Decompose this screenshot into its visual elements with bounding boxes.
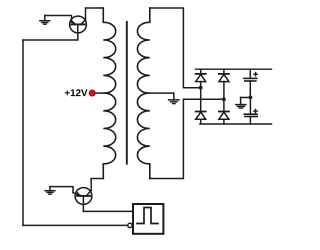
ground G2 (bottom-left) <box>45 187 55 195</box>
node bubble (pulse generator output terminal) <box>128 223 132 227</box>
wire secondary top to bridge AC1 <box>150 8 201 88</box>
node +12V (red dot) <box>89 90 95 96</box>
wire secondary bottom to bridge AC2 <box>150 99 224 178</box>
label +12V <box>65 89 88 96</box>
wire ground G2 to Q2 emitter <box>50 187 73 193</box>
wire bottom rail (- output) <box>200 123 272 125</box>
node capacitor midpoint <box>249 96 253 100</box>
capacitor C1 (top) <box>244 69 257 97</box>
diode D4 (bottom right) <box>219 99 229 124</box>
transformer T1 core <box>126 22 128 164</box>
wire top rail (+ output) <box>196 68 272 70</box>
wire secondary center tap to ground <box>150 92 174 94</box>
wire Q2 base to U1 <box>83 210 133 212</box>
transformer T1 secondary winding <box>137 8 149 179</box>
pulse symbol inside U1 <box>137 208 158 224</box>
diode D3 (bottom left) <box>196 88 206 124</box>
diode D2 (top right) <box>219 69 229 99</box>
capacitor C2 (bottom) <box>244 97 257 124</box>
node AC1 junction <box>199 86 203 90</box>
ground G1 (top-left) <box>40 16 50 25</box>
wire midpoint to ground G4 <box>241 97 251 99</box>
label C2 polarity + <box>254 109 257 112</box>
wire Q2 collector to primary bottom <box>91 179 103 191</box>
wire ground G1 to Q1 emitter <box>45 16 72 21</box>
node AC2 junction <box>222 97 226 101</box>
wire Q2 base lead <box>82 196 84 212</box>
wire primary center tap <box>92 92 103 94</box>
ground G3 (secondary center tap) <box>169 93 179 104</box>
transformer T1 primary winding <box>103 8 115 179</box>
label C1 polarity + <box>254 73 257 76</box>
transistor Q2 <box>73 188 92 205</box>
wire Q1 collector to primary top <box>86 8 104 20</box>
wire bottom rail to pulse generator bubble <box>23 224 128 226</box>
wire left rail <box>22 40 24 225</box>
ground G4 (capacitor midpoint) <box>236 98 246 109</box>
diode D1 (top left) <box>196 69 206 88</box>
transistor Q1 <box>70 16 87 33</box>
wire Q1 base to left rail <box>23 24 78 40</box>
pulse generator U1 box <box>133 204 163 234</box>
